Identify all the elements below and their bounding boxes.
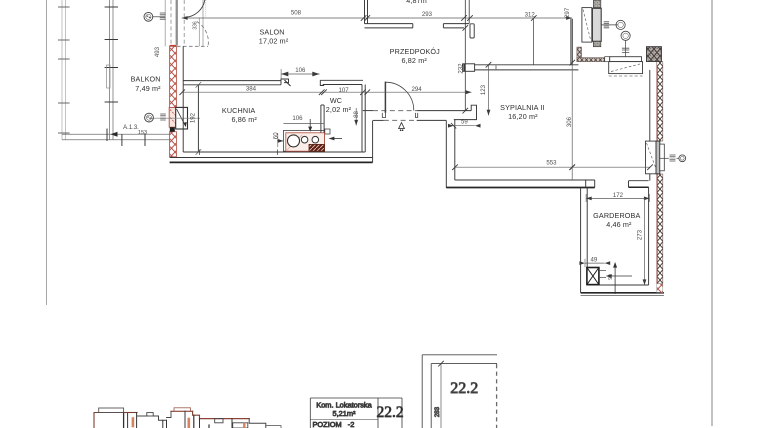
svg-text:293: 293 [422,11,433,18]
svg-text:6,86 m²: 6,86 m² [231,115,257,124]
svg-text:GARDEROBA: GARDEROBA [593,211,640,220]
svg-text:SYPIALNIA II: SYPIALNIA II [500,103,545,112]
svg-text:192: 192 [189,112,196,123]
svg-text:7,49 m²: 7,49 m² [135,84,161,93]
svg-text:PRZEDPOKÓJ: PRZEDPOKÓJ [390,47,440,56]
svg-text:4,46 m²: 4,46 m² [606,220,632,229]
svg-text:17,02 m²: 17,02 m² [259,37,289,46]
svg-text:2,02 m²: 2,02 m² [326,105,352,114]
svg-text:49: 49 [591,256,598,263]
svg-text:KUCHNIA: KUCHNIA [222,106,255,115]
svg-text:POZIOM -2: POZIOM -2 [313,420,355,428]
svg-text:232: 232 [458,63,465,74]
svg-text:273: 273 [637,229,644,240]
svg-text:4,87m: 4,87m [406,0,427,5]
svg-text:22.2: 22.2 [450,380,478,397]
svg-text:153: 153 [138,130,147,136]
svg-text:336: 336 [193,21,199,30]
svg-text:A.1.3.: A.1.3. [123,125,139,131]
svg-text:123: 123 [480,84,487,95]
svg-text:384: 384 [246,86,257,93]
svg-text:106: 106 [295,67,306,74]
svg-text:16,20 m²: 16,20 m² [508,112,538,121]
svg-text:493: 493 [154,46,161,57]
svg-text:297: 297 [564,7,571,18]
svg-text:107: 107 [339,87,350,94]
svg-text:6,82 m²: 6,82 m² [401,56,427,65]
svg-text:553: 553 [546,160,557,167]
svg-text:59: 59 [461,119,468,126]
svg-text:88: 88 [353,111,360,118]
svg-text:508: 508 [291,9,302,16]
svg-text:WC: WC [330,96,342,105]
svg-text:306: 306 [566,116,573,127]
svg-text:90: 90 [608,274,614,280]
svg-text:5,21m²: 5,21m² [332,409,356,418]
svg-text:172: 172 [613,192,624,199]
svg-text:BALKON: BALKON [131,74,161,83]
svg-text:294: 294 [412,86,423,93]
svg-text:60: 60 [273,132,280,139]
svg-text:106: 106 [292,115,303,122]
svg-text:SALON: SALON [259,28,284,37]
svg-text:312: 312 [525,11,536,18]
svg-text:22.2: 22.2 [376,404,403,421]
svg-text:283: 283 [434,406,441,417]
